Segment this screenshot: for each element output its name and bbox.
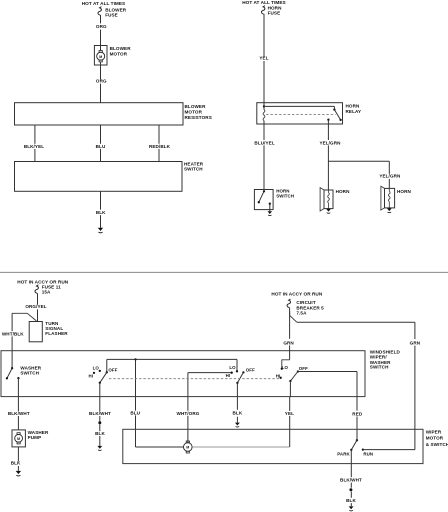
- svg-text:HI: HI: [89, 374, 94, 379]
- svg-text:GRN: GRN: [410, 340, 421, 345]
- svg-text:BLK/WHT: BLK/WHT: [89, 411, 111, 416]
- svg-text:OFF: OFF: [246, 367, 255, 372]
- svg-text:BLU: BLU: [130, 410, 140, 415]
- svg-text:MOTOR: MOTOR: [110, 51, 128, 56]
- svg-text:FUSE: FUSE: [105, 12, 118, 17]
- svg-text:OFF: OFF: [299, 366, 308, 371]
- svg-text:RELAY: RELAY: [346, 109, 362, 114]
- svg-text:RED/BLK: RED/BLK: [149, 144, 171, 149]
- svg-text:BLU/YEL: BLU/YEL: [254, 140, 274, 145]
- svg-text:YEL/GRN: YEL/GRN: [379, 174, 401, 179]
- svg-text:15A: 15A: [42, 289, 51, 294]
- svg-text:M: M: [17, 437, 20, 441]
- svg-text:SWITCH: SWITCH: [184, 167, 203, 172]
- svg-text:BLOWER: BLOWER: [185, 104, 207, 109]
- svg-text:BLK/WHT: BLK/WHT: [8, 411, 30, 416]
- svg-text:SWITCH: SWITCH: [276, 194, 294, 199]
- svg-text:HOT AT ALL TIMES: HOT AT ALL TIMES: [82, 1, 126, 6]
- svg-text:HOT IN ACCY OR RUN: HOT IN ACCY OR RUN: [271, 292, 322, 297]
- svg-text:GRN: GRN: [283, 340, 294, 345]
- svg-text:LO: LO: [93, 366, 100, 371]
- svg-text:LO: LO: [282, 365, 289, 370]
- svg-text:HORN: HORN: [397, 189, 412, 194]
- svg-text:HEATER: HEATER: [184, 161, 204, 166]
- svg-text:FLASHER: FLASHER: [45, 331, 68, 336]
- svg-text:WIPER: WIPER: [426, 429, 442, 434]
- svg-text:HI: HI: [226, 373, 231, 378]
- svg-text:7.5A: 7.5A: [296, 310, 307, 315]
- svg-text:WIPER/: WIPER/: [370, 354, 388, 359]
- svg-text:M: M: [99, 55, 102, 59]
- svg-text:YEL: YEL: [259, 56, 268, 61]
- svg-text:MOTOR: MOTOR: [426, 436, 444, 441]
- svg-text:BLK: BLK: [96, 210, 106, 215]
- svg-text:& SWITCH: & SWITCH: [426, 442, 448, 447]
- svg-text:M: M: [186, 446, 189, 450]
- svg-text:RED: RED: [352, 411, 363, 416]
- svg-text:BLK/YEL: BLK/YEL: [24, 144, 44, 149]
- svg-text:BLK: BLK: [233, 410, 243, 415]
- svg-text:LO: LO: [229, 365, 236, 370]
- svg-text:SWITCH: SWITCH: [20, 370, 39, 375]
- svg-text:PARK: PARK: [337, 451, 350, 456]
- svg-text:HORN: HORN: [336, 189, 351, 194]
- svg-text:WHT/BLK: WHT/BLK: [2, 331, 24, 336]
- svg-text:RESISTORS: RESISTORS: [185, 115, 212, 120]
- svg-text:YEL/GRN: YEL/GRN: [319, 140, 341, 145]
- svg-text:YEL: YEL: [285, 411, 294, 416]
- svg-text:BLK: BLK: [11, 461, 21, 466]
- svg-text:RUN: RUN: [363, 451, 373, 456]
- svg-text:ORG/YEL: ORG/YEL: [25, 304, 46, 309]
- svg-text:WHT/ORG: WHT/ORG: [177, 411, 200, 416]
- svg-text:ORG: ORG: [96, 78, 107, 83]
- svg-text:BLK: BLK: [95, 431, 105, 436]
- svg-text:HORN: HORN: [346, 103, 361, 108]
- svg-text:FUSE: FUSE: [268, 11, 281, 16]
- svg-text:BLU: BLU: [96, 144, 106, 149]
- svg-text:BLK: BLK: [346, 498, 356, 503]
- svg-text:OFF: OFF: [108, 368, 117, 373]
- svg-text:HOT AT ALL TIMES: HOT AT ALL TIMES: [242, 0, 286, 5]
- svg-text:BLK/WHT: BLK/WHT: [340, 478, 362, 483]
- svg-text:SWITCH: SWITCH: [370, 365, 389, 370]
- svg-text:MOTOR: MOTOR: [185, 110, 203, 115]
- svg-text:ORG: ORG: [96, 24, 107, 29]
- svg-text:PUMP: PUMP: [28, 435, 42, 440]
